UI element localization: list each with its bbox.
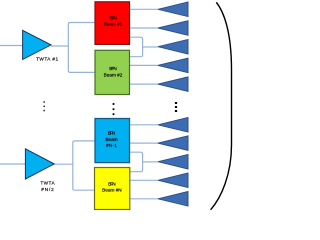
svg-text:Beam #1: Beam #1	[104, 22, 123, 27]
svg-text:#N/2: #N/2	[41, 187, 54, 192]
svg-text:TWTA: TWTA	[40, 181, 55, 186]
svg-text:BFN: BFN	[108, 181, 116, 186]
svg-text:Beam #2: Beam #2	[104, 72, 123, 77]
svg-text:TWTA #1: TWTA #1	[36, 56, 58, 61]
svg-text:BFN: BFN	[108, 131, 116, 136]
svg-text:BFN: BFN	[109, 66, 117, 71]
svg-text:#N-1: #N-1	[106, 143, 117, 148]
svg-text:Beam #N: Beam #N	[102, 188, 122, 193]
svg-text:BFN: BFN	[109, 15, 117, 20]
svg-text:Beam: Beam	[105, 137, 117, 142]
